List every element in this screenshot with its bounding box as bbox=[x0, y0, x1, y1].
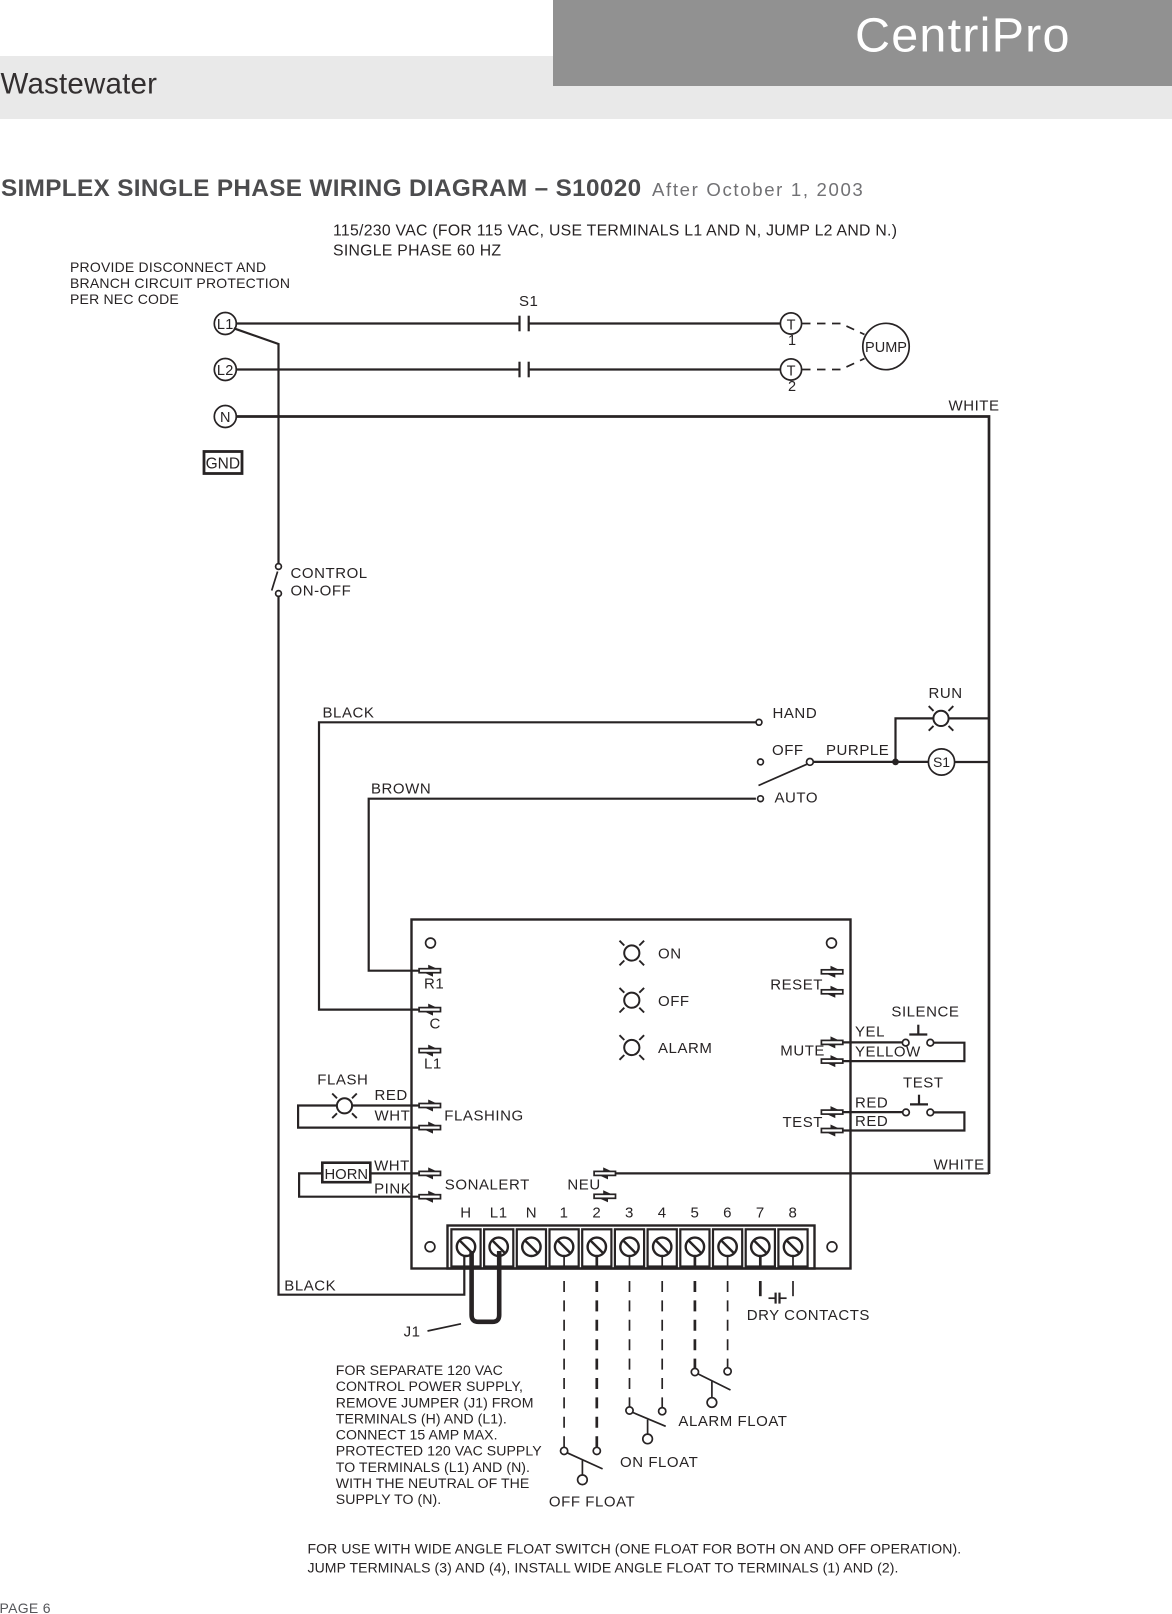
terminal N bbox=[214, 406, 236, 428]
terminal cell 5 bbox=[680, 1229, 709, 1266]
svg-text:S1: S1 bbox=[519, 293, 538, 310]
svg-text:ALARM FLOAT: ALARM FLOAT bbox=[678, 1413, 787, 1430]
svg-text:RED: RED bbox=[375, 1087, 408, 1104]
svg-text:R1: R1 bbox=[424, 976, 444, 993]
wire lower contact to T2 bbox=[530, 368, 781, 370]
wire BLACK to HAND and C bbox=[319, 722, 756, 1009]
svg-text:RESET: RESET bbox=[770, 976, 823, 993]
terminal cell 4 bbox=[648, 1229, 677, 1266]
svg-text:TEST: TEST bbox=[903, 1075, 944, 1092]
svg-text:CentriPro: CentriPro bbox=[855, 9, 1071, 63]
screw 4 bbox=[653, 1238, 671, 1256]
svg-text:OFF FLOAT: OFF FLOAT bbox=[549, 1494, 635, 1511]
terminal C bbox=[419, 1004, 440, 1016]
svg-text:SINGLE PHASE 60 HZ: SINGLE PHASE 60 HZ bbox=[333, 243, 501, 260]
svg-text:PROTECTED 120 VAC SUPPLY: PROTECTED 120 VAC SUPPLY bbox=[336, 1443, 542, 1459]
ground label GND bbox=[204, 452, 242, 474]
svg-text:WHT: WHT bbox=[374, 1157, 410, 1174]
svg-text:FOR USE WITH WIDE ANGLE FLOAT: FOR USE WITH WIDE ANGLE FLOAT SWITCH (ON… bbox=[308, 1541, 962, 1557]
svg-text:L1: L1 bbox=[424, 1055, 442, 1072]
svg-text:BRANCH CIRCUIT PROTECTION: BRANCH CIRCUIT PROTECTION bbox=[70, 275, 290, 291]
terminal R1 bbox=[419, 965, 440, 977]
wire stub 8 bbox=[792, 1256, 794, 1269]
wire stub 7 thick bbox=[759, 1256, 762, 1269]
svg-text:L2: L2 bbox=[217, 363, 234, 379]
svg-text:DRY CONTACTS: DRY CONTACTS bbox=[747, 1307, 870, 1324]
terminal cell N bbox=[517, 1229, 546, 1266]
dashed wire T1 to pump bbox=[802, 324, 865, 335]
svg-text:PAGE 6: PAGE 6 bbox=[0, 1600, 51, 1614]
screw 8 bbox=[784, 1238, 802, 1256]
terminal T1 bbox=[780, 313, 801, 334]
wire dashed terminal 3 to on float bbox=[629, 1281, 631, 1407]
wire stub 2 thick bbox=[595, 1256, 598, 1269]
wire BROWN to AUTO and R1 bbox=[369, 799, 756, 971]
contact DRY CONTACTS bbox=[769, 1297, 775, 1299]
control panel box bbox=[412, 920, 851, 1269]
switch HOA: pole and blade bbox=[807, 759, 814, 766]
screw L1 bbox=[490, 1238, 508, 1256]
terminal L1 bbox=[214, 313, 236, 335]
terminal cell H bbox=[451, 1229, 480, 1266]
header band bbox=[0, 56, 1172, 119]
wire stub 4 bbox=[661, 1256, 663, 1269]
wire S1 to T1 bbox=[530, 322, 781, 324]
svg-text:RED: RED bbox=[855, 1095, 888, 1112]
svg-text:WHITE: WHITE bbox=[949, 398, 1000, 415]
screw 7 bbox=[751, 1238, 769, 1256]
svg-text:S1: S1 bbox=[933, 754, 950, 770]
terminal cell 7 bbox=[746, 1229, 775, 1266]
svg-text:OFF: OFF bbox=[772, 742, 804, 759]
mounting hole bottom-left bbox=[425, 1242, 435, 1252]
terminal MUTE upper bbox=[821, 1036, 842, 1048]
screw 6 bbox=[718, 1238, 736, 1256]
svg-text:WHT: WHT bbox=[375, 1108, 411, 1125]
svg-text:YEL: YEL bbox=[855, 1023, 885, 1040]
svg-text:FLASHING: FLASHING bbox=[444, 1108, 523, 1125]
terminal cell 3 bbox=[615, 1229, 644, 1266]
wire S1 coil to neutral bbox=[955, 761, 989, 763]
svg-text:CONTROL: CONTROL bbox=[291, 565, 368, 582]
motor PUMP bbox=[863, 323, 909, 369]
mounting hole top-left bbox=[426, 938, 436, 948]
svg-text:N: N bbox=[526, 1205, 537, 1222]
svg-text:CONTROL POWER SUPPLY,: CONTROL POWER SUPPLY, bbox=[336, 1378, 523, 1394]
wire RUN lamp to neutral bbox=[948, 717, 989, 719]
screw 1 bbox=[555, 1238, 573, 1256]
svg-text:WITH THE NEUTRAL OF THE: WITH THE NEUTRAL OF THE bbox=[336, 1475, 530, 1491]
svg-text:BROWN: BROWN bbox=[371, 781, 431, 798]
led OFF bbox=[620, 988, 645, 1013]
svg-text:H: H bbox=[460, 1205, 471, 1222]
mounting hole bottom-right bbox=[827, 1242, 837, 1252]
svg-text:T: T bbox=[787, 318, 796, 334]
wire dashed terminal 2 to off float bbox=[595, 1281, 598, 1447]
svg-text:5: 5 bbox=[690, 1205, 699, 1222]
svg-text:MUTE: MUTE bbox=[780, 1043, 825, 1060]
svg-text:AUTO: AUTO bbox=[775, 789, 819, 806]
svg-text:ON: ON bbox=[658, 946, 682, 963]
horn HORN bbox=[322, 1163, 370, 1183]
terminal T2 bbox=[780, 359, 801, 380]
terminal cell 2 bbox=[582, 1229, 611, 1266]
terminal cell 1 bbox=[550, 1229, 579, 1266]
svg-text:2: 2 bbox=[592, 1205, 601, 1222]
svg-text:SILENCE: SILENCE bbox=[891, 1003, 959, 1020]
svg-text:8: 8 bbox=[789, 1205, 798, 1222]
wire dashed terminal 5 to alarm float bbox=[694, 1281, 697, 1368]
led ON bbox=[620, 941, 645, 966]
svg-text:C: C bbox=[430, 1016, 441, 1033]
wire flash WHT loop bbox=[298, 1106, 420, 1128]
svg-text:ON FLOAT: ON FLOAT bbox=[620, 1454, 698, 1471]
svg-text:RUN: RUN bbox=[929, 685, 963, 702]
screw H bbox=[457, 1238, 475, 1256]
mounting hole top-right bbox=[827, 938, 837, 948]
screw N bbox=[522, 1238, 540, 1256]
svg-text:JUMP TERMINALS (3) AND (4), IN: JUMP TERMINALS (3) AND (4), INSTALL WIDE… bbox=[308, 1560, 899, 1576]
wire L1 drop bbox=[234, 328, 279, 563]
wire dashed terminal 4 to on float bbox=[661, 1281, 663, 1407]
svg-text:L1: L1 bbox=[217, 317, 234, 333]
svg-text:L1: L1 bbox=[490, 1205, 508, 1222]
wire NEU to neutral white bbox=[615, 1172, 989, 1174]
terminal SONALERT upper bbox=[419, 1167, 440, 1179]
switch HOA: HAND contact bbox=[756, 719, 762, 725]
svg-text:1: 1 bbox=[560, 1205, 569, 1222]
svg-text:T: T bbox=[787, 364, 796, 380]
svg-text:PUMP: PUMP bbox=[865, 340, 907, 356]
svg-text:4: 4 bbox=[658, 1205, 667, 1222]
wire MUTE-SILENCE loop bbox=[842, 1041, 903, 1043]
svg-text:6: 6 bbox=[723, 1205, 732, 1222]
wire stub 3 bbox=[629, 1256, 631, 1269]
switch ALARM FLOAT bbox=[691, 1368, 698, 1375]
svg-text:Wastewater: Wastewater bbox=[1, 68, 158, 101]
contact S1 lower bbox=[518, 362, 520, 378]
terminal cell 8 bbox=[778, 1229, 807, 1266]
svg-text:PER NEC CODE: PER NEC CODE bbox=[70, 291, 179, 307]
svg-text:CONNECT 15 AMP MAX.: CONNECT 15 AMP MAX. bbox=[336, 1427, 498, 1443]
svg-text:FLASH: FLASH bbox=[317, 1072, 368, 1089]
terminal NEU lower bbox=[594, 1190, 615, 1202]
svg-text:FOR SEPARATE 120 VAC: FOR SEPARATE 120 VAC bbox=[336, 1362, 503, 1378]
terminal SONALERT lower bbox=[419, 1191, 440, 1203]
wire flash RED to spade bbox=[352, 1104, 420, 1106]
svg-text:REMOVE JUMPER (J1) FROM: REMOVE JUMPER (J1) FROM bbox=[336, 1394, 534, 1410]
svg-text:NEU: NEU bbox=[567, 1177, 600, 1194]
contact S1 upper bbox=[518, 316, 520, 332]
terminal RESET lower bbox=[821, 986, 842, 998]
svg-text:PURPLE: PURPLE bbox=[826, 742, 889, 759]
wire stub 1 bbox=[563, 1256, 565, 1269]
svg-text:1: 1 bbox=[788, 333, 796, 349]
screw 3 bbox=[620, 1238, 638, 1256]
svg-text:YELLOW: YELLOW bbox=[855, 1043, 921, 1060]
svg-text:After October 1, 2003: After October 1, 2003 bbox=[652, 179, 864, 200]
switch ON FLOAT bbox=[626, 1407, 633, 1414]
terminal TEST lower bbox=[821, 1125, 842, 1137]
svg-text:3: 3 bbox=[625, 1205, 634, 1222]
wire L2 to lower contact bbox=[237, 368, 520, 370]
wire control drop to H bbox=[279, 597, 465, 1295]
terminal NEU upper bbox=[594, 1167, 615, 1179]
header logo box bbox=[553, 0, 1172, 86]
switch CONTROL ON-OFF bbox=[276, 564, 282, 570]
terminal L1 spade bbox=[419, 1045, 440, 1057]
wire junction to RUN lamp bbox=[896, 718, 934, 762]
svg-text:HAND: HAND bbox=[773, 705, 818, 722]
svg-text:ON-OFF: ON-OFF bbox=[291, 583, 352, 600]
svg-text:SIMPLEX SINGLE PHASE WIRING DI: SIMPLEX SINGLE PHASE WIRING DIAGRAM – S1… bbox=[1, 175, 642, 202]
junction node bbox=[892, 759, 899, 766]
terminal FLASHING lower bbox=[419, 1122, 440, 1134]
wire dashed terminal 1 to off float bbox=[563, 1281, 565, 1447]
svg-text:SUPPLY TO (N).: SUPPLY TO (N). bbox=[336, 1491, 441, 1507]
terminal L2 bbox=[214, 359, 236, 381]
led ALARM bbox=[620, 1035, 645, 1060]
svg-text:PINK: PINK bbox=[374, 1180, 411, 1197]
svg-text:SONALERT: SONALERT bbox=[445, 1177, 530, 1194]
terminal TEST upper bbox=[821, 1106, 842, 1118]
svg-text:BLACK: BLACK bbox=[284, 1277, 336, 1294]
terminal strip outer bbox=[448, 1226, 815, 1269]
screw 2 bbox=[588, 1238, 606, 1256]
svg-text:PROVIDE DISCONNECT AND: PROVIDE DISCONNECT AND bbox=[70, 259, 266, 275]
relay coil S1 bbox=[928, 749, 954, 775]
dashed wire T2 to pump bbox=[802, 359, 865, 370]
switch OFF FLOAT bbox=[561, 1447, 568, 1454]
wire horn WHT bbox=[370, 1172, 419, 1174]
terminal RESET upper bbox=[821, 966, 842, 978]
svg-text:BLACK: BLACK bbox=[323, 705, 375, 722]
terminal FLASHING upper bbox=[419, 1100, 440, 1112]
svg-text:115/230 VAC (FOR 115 VAC, USE: 115/230 VAC (FOR 115 VAC, USE TERMINALS … bbox=[333, 223, 897, 240]
svg-text:GND: GND bbox=[206, 456, 240, 473]
svg-text:2: 2 bbox=[788, 379, 796, 395]
terminal MUTE lower bbox=[821, 1055, 842, 1067]
wire PURPLE bbox=[814, 761, 929, 763]
wire dashed terminal 7 bbox=[759, 1281, 762, 1296]
switch HOA: AUTO contact bbox=[758, 796, 764, 802]
wire horn PINK loop bbox=[299, 1173, 420, 1196]
wire stub 5 thick bbox=[694, 1256, 697, 1269]
screw 5 bbox=[686, 1238, 704, 1256]
terminal cell 6 bbox=[713, 1229, 742, 1266]
svg-text:TERMINALS (H) AND (L1).: TERMINALS (H) AND (L1). bbox=[336, 1410, 507, 1426]
svg-text:OFF: OFF bbox=[658, 993, 690, 1010]
svg-text:HORN: HORN bbox=[325, 1167, 369, 1183]
wire TEST button loop bbox=[842, 1111, 903, 1113]
jumper J1 bbox=[472, 1251, 500, 1322]
terminal cell L1 bbox=[484, 1229, 513, 1266]
svg-text:TEST: TEST bbox=[782, 1114, 823, 1131]
svg-text:7: 7 bbox=[756, 1205, 765, 1222]
svg-text:N: N bbox=[220, 410, 230, 426]
svg-text:TO TERMINALS (L1) AND (N).: TO TERMINALS (L1) AND (N). bbox=[336, 1459, 530, 1475]
switch HOA: OFF contact bbox=[758, 759, 764, 765]
svg-text:ALARM: ALARM bbox=[658, 1040, 712, 1057]
svg-text:J1: J1 bbox=[404, 1323, 421, 1340]
wire dashed terminal 6 to alarm float bbox=[727, 1281, 729, 1368]
wire N neutral white bbox=[237, 417, 990, 1175]
wire dashed terminal 8 bbox=[792, 1281, 794, 1296]
svg-text:RED: RED bbox=[855, 1113, 888, 1130]
wire L1 to S1 contact bbox=[237, 322, 520, 324]
wire stub 6 bbox=[727, 1256, 729, 1269]
svg-text:WHITE: WHITE bbox=[934, 1156, 985, 1173]
